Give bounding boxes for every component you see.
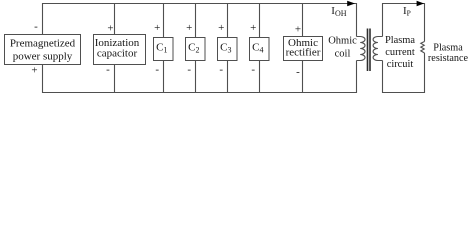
svg-text:coil: coil (335, 49, 351, 60)
svg-text:IOH: IOH (331, 5, 346, 18)
svg-text:capacitor: capacitor (97, 47, 138, 59)
svg-text:circuit: circuit (387, 59, 414, 70)
svg-text:power supply: power supply (13, 50, 73, 62)
svg-text:-: - (187, 63, 191, 75)
svg-text:current: current (385, 47, 415, 58)
svg-text:+: + (31, 65, 37, 77)
svg-text:Ohmic: Ohmic (328, 35, 357, 46)
svg-text:IP: IP (403, 5, 411, 18)
svg-text:-: - (296, 66, 300, 78)
svg-text:+: + (295, 24, 301, 36)
svg-text:-: - (251, 63, 255, 75)
svg-text:+: + (218, 22, 224, 34)
svg-text:Plasma: Plasma (385, 35, 415, 46)
svg-text:Plasma: Plasma (433, 43, 463, 54)
svg-text:resistance: resistance (428, 53, 469, 64)
svg-text:Premagnetized: Premagnetized (10, 38, 76, 50)
svg-text:-: - (155, 63, 159, 75)
svg-text:-: - (34, 21, 38, 33)
svg-text:rectifier: rectifier (286, 46, 321, 58)
svg-text:+: + (154, 22, 160, 34)
svg-text:-: - (106, 63, 110, 75)
svg-text:-: - (219, 63, 223, 75)
svg-text:+: + (107, 22, 113, 34)
svg-text:+: + (250, 22, 256, 34)
svg-text:+: + (186, 22, 192, 34)
